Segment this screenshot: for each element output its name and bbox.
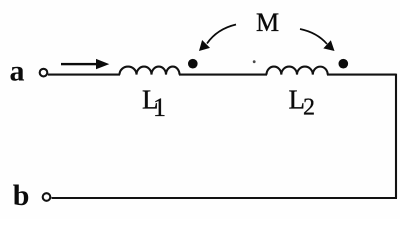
svg-text:b: b [13,179,30,212]
svg-text:2: 2 [303,94,315,120]
svg-text:M: M [256,8,279,37]
svg-text:a: a [10,55,25,88]
svg-text:1: 1 [153,93,166,122]
